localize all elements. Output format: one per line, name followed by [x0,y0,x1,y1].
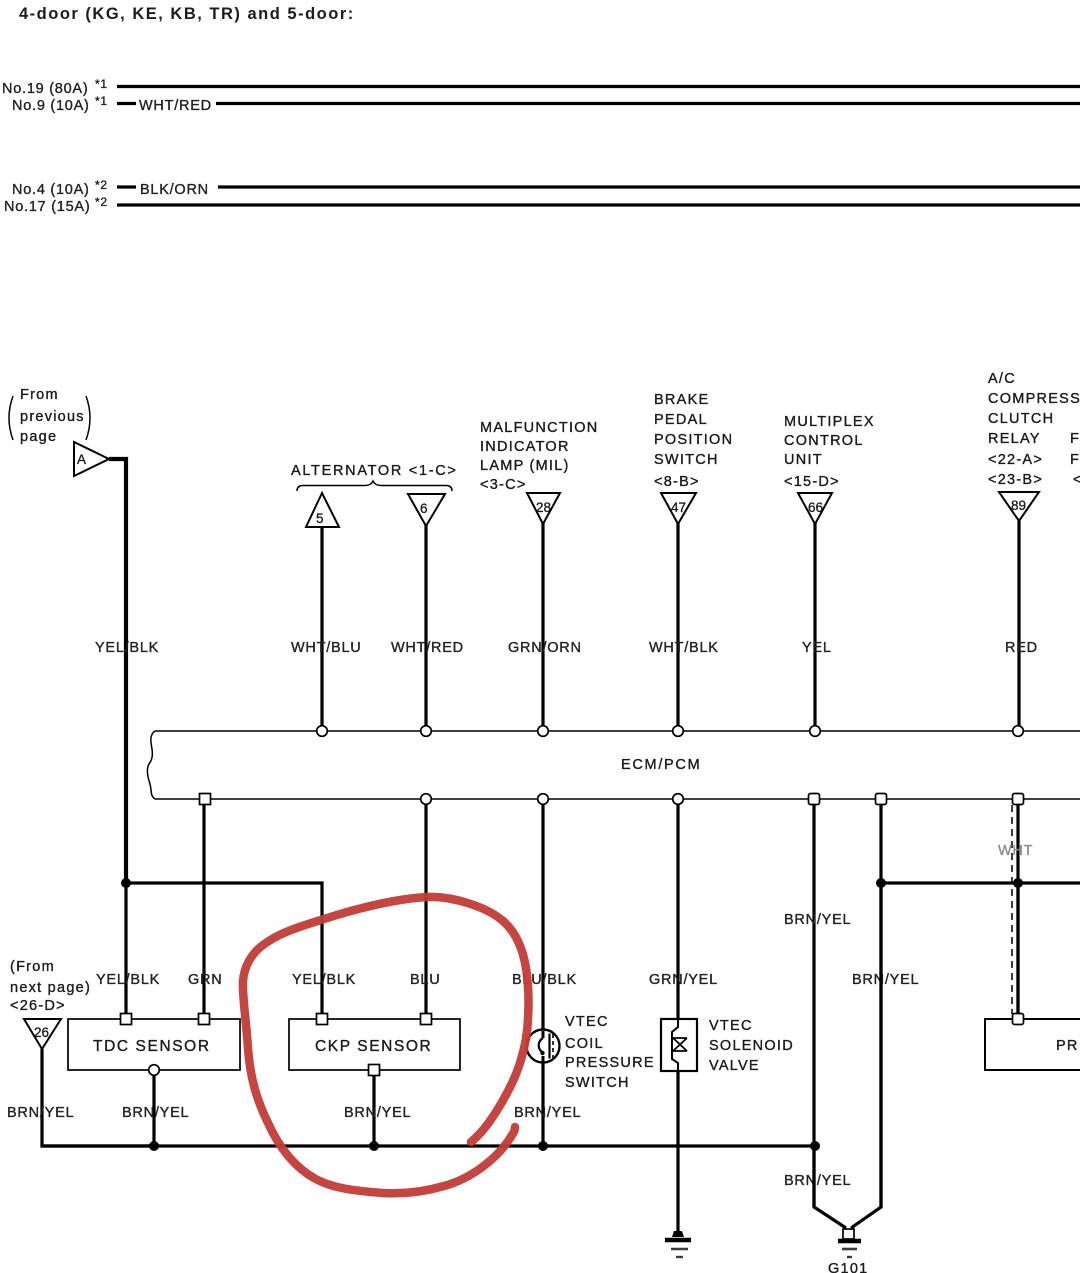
junction 1018,883 [1013,878,1023,888]
connector A triangle [74,442,109,476]
pin square 814 bottom [809,794,820,805]
svg-text:BRN/YEL: BRN/YEL [784,1173,851,1189]
svg-text:YEL/BLK: YEL/BLK [96,972,160,988]
junction 543,1146 [538,1141,548,1151]
svg-text:G101: G101 [828,1261,868,1273]
svg-text:F: F [1070,452,1080,468]
ground solenoid [672,1231,684,1237]
wire GRN/ORN [541,510,544,726]
svg-text:RED: RED [1005,640,1038,656]
pin square CKP bottom [369,1065,380,1076]
pin circle 815 top [810,726,821,737]
pin circle TDC bottom [149,1065,160,1076]
svg-text:*2: *2 [95,178,108,192]
pin square TDC left [121,1014,132,1025]
svg-text:GRN: GRN [188,972,222,988]
VTEC coil pressure switch circle [527,1030,560,1063]
wire BRN/YEL 26 [42,1049,154,1146]
svg-text:INDICATOR: INDICATOR [480,439,570,455]
pin circle 678 top [673,726,684,737]
wire BRN/YEL horizontal 883 [881,881,1080,884]
wire WHT pair to PR box [1016,883,1019,1015]
pin circle 426 bottom [421,794,432,805]
svg-text:PR: PR [1056,1038,1079,1054]
junction 374,1146 [369,1141,379,1151]
svg-text:66: 66 [808,500,823,515]
wire funnel to G101 [814,1146,846,1228]
svg-text:26: 26 [34,1025,49,1040]
svg-text:*1: *1 [95,94,108,108]
svg-text:28: 28 [536,500,551,515]
svg-text:WHT: WHT [998,843,1033,859]
pin square 881 bottom [876,794,887,805]
wire solenoid to ground [676,1071,679,1232]
wire WHT/BLK [676,510,679,726]
connector 5 triangle [306,493,339,527]
svg-text:LAMP (MIL): LAMP (MIL) [480,458,570,474]
svg-text:ECM/PCM: ECM/PCM [621,757,701,773]
svg-text:*2: *2 [95,195,108,209]
svg-text:previous: previous [20,409,85,425]
svg-text:No.4 (10A): No.4 (10A) [12,182,90,198]
svg-text:PEDAL: PEDAL [654,412,708,428]
svg-text:F: F [1070,431,1080,447]
svg-text:47: 47 [671,500,686,515]
svg-text:page: page [20,429,57,445]
svg-text:BRN/YEL: BRN/YEL [852,972,919,988]
wire WHT/RED [424,512,427,726]
pin circle 678 bottom [673,794,684,805]
svg-text:GRN/ORN: GRN/ORN [508,640,582,656]
svg-text:BRN/YEL: BRN/YEL [784,912,851,928]
junction 881,883 [876,878,886,888]
svg-text:CLUTCH: CLUTCH [988,411,1054,427]
svg-text:No.17 (15A): No.17 (15A) [4,199,90,215]
ECM/PCM bottom line [155,798,1080,800]
svg-text:WHT/RED: WHT/RED [391,640,464,656]
wire fuse No.9 WHT/RED [216,102,1080,105]
wire branch YEL/BLK to CKP [126,883,322,1014]
svg-text:YEL/BLK: YEL/BLK [95,640,159,656]
wire YEL/BLK to TDC [124,883,127,1014]
svg-text:4-door (KG, KE, KB, TR) and 5-: 4-door (KG, KE, KB, TR) and 5-door: [19,5,355,23]
junction 154,1146 [149,1141,159,1151]
svg-text:CKP SENSOR: CKP SENSOR [315,1038,432,1055]
wire BLU/BLK lower [541,1063,544,1146]
svg-text:GRN/YEL: GRN/YEL [649,972,718,988]
svg-text:<23-B>: <23-B> [988,472,1043,488]
svg-text:SWITCH: SWITCH [654,452,719,468]
pin circle 543 bottom [538,794,549,805]
pin square CKP left [317,1014,328,1025]
svg-text:YEL: YEL [802,640,832,656]
svg-text:<15-D>: <15-D> [784,474,840,490]
svg-text:RELAY: RELAY [988,431,1041,447]
svg-text:(From: (From [10,959,55,975]
wire fuse No.19 [117,85,1080,88]
svg-text:TDC SENSOR: TDC SENSOR [93,1038,211,1055]
ECM/PCM top line [155,730,1080,732]
svg-text:MULTIPLEX: MULTIPLEX [784,414,875,430]
bottom BRN/YEL bus [42,1144,815,1147]
svg-text:WHT/BLU: WHT/BLU [291,640,362,656]
svg-text:WHT/RED: WHT/RED [139,98,212,114]
pin circle 1018 top [1013,726,1024,737]
wire GRN/YEL [676,805,679,1021]
junction 126,883 [121,878,131,888]
wire stub No.9 [117,102,136,105]
wire RED [1017,508,1020,726]
PRESSURE box partial [985,1019,1080,1070]
svg-text:BLU/BLK: BLU/BLK [512,972,577,988]
svg-text:VTEC: VTEC [709,1018,753,1034]
svg-text:<22-A>: <22-A> [988,452,1043,468]
svg-text:BLU: BLU [410,972,440,988]
pin square G101 [843,1229,854,1239]
wire WHT shield dashed [1011,805,1013,1014]
svg-text:MALFUNCTION: MALFUNCTION [480,420,598,436]
svg-text:WHT/BLK: WHT/BLK [649,640,719,656]
pin circle 322 top [317,726,328,737]
wire WHT/BLU [320,526,323,726]
svg-text:ALTERNATOR <1-C>: ALTERNATOR <1-C> [291,463,458,479]
wire WHT solid [1016,805,1019,1016]
connector 26 triangle [24,1019,61,1049]
svg-text:COMPRESSOR: COMPRESSOR [988,391,1080,407]
wire GRN [202,805,205,1015]
svg-text:BLK/ORN: BLK/ORN [140,182,209,198]
svg-text:No.9 (10A): No.9 (10A) [12,98,90,114]
pin square 1018 bottom [1013,794,1024,805]
ground G101 [838,1239,861,1243]
wire BLU [424,805,427,1015]
svg-text:SWITCH: SWITCH [565,1075,630,1091]
wire BRN/YEL 814 [812,805,815,1208]
svg-text:89: 89 [1011,498,1026,513]
connector 28 triangle [527,493,560,524]
brace alternator [297,481,452,491]
svg-text:6: 6 [420,501,428,516]
svg-text:POSITION: POSITION [654,432,733,448]
svg-text:A/C: A/C [988,371,1016,387]
TDC SENSOR box [68,1019,240,1070]
wire TDC BRN/YEL [152,1076,155,1147]
wire YEL [813,510,816,726]
wire A YEL/BLK [109,459,126,883]
svg-text:BRN/YEL: BRN/YEL [514,1105,581,1121]
connector 89 triangle [999,492,1039,521]
pin PR box [1013,1014,1024,1025]
svg-text:BRN/YEL: BRN/YEL [344,1105,411,1121]
pin circle 426 top [421,726,432,737]
svg-text:BRAKE: BRAKE [654,392,709,408]
connector 66 triangle [798,493,832,524]
pin square 205 bottom [200,794,211,805]
pin square CKP right [421,1014,432,1025]
svg-text:<: < [1073,472,1080,488]
CKP SENSOR box [289,1019,460,1070]
svg-text:*1: *1 [95,77,108,91]
svg-text:5: 5 [316,511,324,526]
connector 6 triangle [408,494,445,526]
VTEC solenoid valve box [661,1019,697,1071]
solenoid coil symbol [672,1019,678,1071]
svg-text:<8-B>: <8-B> [654,474,700,490]
svg-text:next page): next page) [10,980,91,996]
svg-text:PRESSURE: PRESSURE [565,1055,655,1071]
svg-text:BRN/YEL: BRN/YEL [122,1105,189,1121]
ECM/PCM left brace [147,731,155,799]
connector 47 triangle [661,493,696,524]
wire fuse No.17 [117,203,1080,206]
svg-text:YEL/BLK: YEL/BLK [292,972,356,988]
red hand-drawn circle [243,897,529,1193]
junction 815,1146 [810,1141,820,1151]
pin square TDC right [199,1014,210,1025]
pin circle 543 top [538,726,549,737]
svg-text:No.19 (80A): No.19 (80A) [2,81,88,97]
svg-text:COIL: COIL [565,1036,604,1052]
svg-text:<26-D>: <26-D> [10,998,66,1014]
wire CKP BRN/YEL [372,1076,375,1147]
svg-text:UNIT: UNIT [784,452,823,468]
wire BLU/BLK [541,805,544,1031]
svg-text:A: A [77,452,86,467]
svg-text:CONTROL: CONTROL [784,433,864,449]
svg-text:From: From [20,387,59,403]
wire stub No.4 [117,185,136,188]
wire fuse No.4 BLK/ORN [218,185,1080,188]
svg-text:VTEC: VTEC [565,1014,609,1030]
svg-text:VALVE: VALVE [709,1058,760,1074]
svg-text:<3-C>: <3-C> [480,477,527,493]
wire BRN/YEL 881 [879,805,882,1208]
svg-text:SOLENOID: SOLENOID [709,1038,794,1054]
svg-text:BRN/YEL: BRN/YEL [7,1105,74,1121]
